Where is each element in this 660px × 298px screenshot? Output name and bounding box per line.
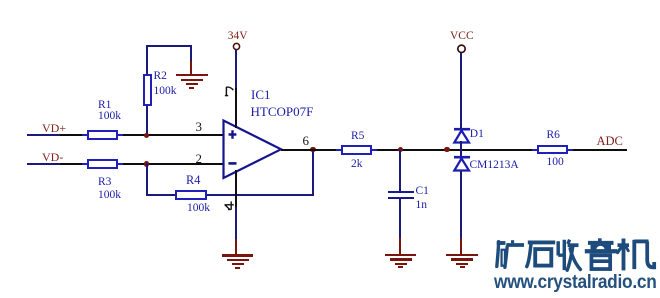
pin number 6 — [303, 134, 310, 147]
wire CM1213A to ground — [460, 171, 462, 238]
label R1 — [98, 100, 111, 112]
label R3 — [98, 177, 111, 189]
wire R2 top to ground — [146, 45, 148, 74]
wire feedback bottom left segment — [146, 194, 176, 196]
resistor R3 — [82, 163, 87, 165]
label R6 — [547, 130, 560, 142]
value 2k — [351, 159, 363, 171]
wire pin 4 down — [235, 170, 237, 207]
resistor R6 — [532, 149, 537, 151]
wire R2 bottom lead — [146, 105, 148, 135]
wire C1 bottom lead — [399, 199, 401, 238]
resistor R2 — [143, 74, 153, 106]
net label VD- — [42, 151, 63, 163]
wire feedback vertical up to output — [312, 150, 314, 196]
wire R5 to R6 (black) — [377, 149, 537, 151]
wire VD- to pin 2 (black) — [60, 163, 223, 165]
value 100k (R3) — [98, 190, 121, 202]
node junction diode clamp — [444, 147, 449, 152]
diode CM1213A — [450, 154, 474, 174]
label HTCOP07F — [251, 105, 314, 118]
wire VD+ net stub (navy) — [27, 134, 62, 136]
pin number 7 (rotated) — [222, 84, 236, 99]
wire between diodes — [460, 141, 462, 157]
label R5 — [351, 131, 364, 143]
watermark logo (site name) — [492, 236, 658, 274]
net label ADC — [597, 135, 623, 148]
pin number 4 (rotated) — [223, 199, 237, 214]
op-amp U1 triangle — [218, 115, 288, 185]
resistor R1 — [82, 134, 87, 136]
ground (C1) — [399, 238, 401, 254]
ground (top, by R2) — [190, 61, 192, 75]
ji — [618, 243, 630, 247]
value 100 — [547, 157, 564, 169]
value 100k (R1) — [98, 111, 121, 123]
shi — [528, 240, 555, 244]
resistor R5 — [336, 149, 341, 151]
node junction VD-/feedback — [144, 161, 149, 166]
value 100k (R4) — [187, 203, 210, 215]
kuang — [497, 242, 499, 267]
capacitor C1 — [388, 191, 414, 193]
label C1 — [416, 186, 429, 198]
label R4 — [186, 174, 200, 186]
resistor R4 — [175, 190, 207, 200]
yin — [598, 238, 602, 241]
wire VD- net stub (navy) — [27, 163, 62, 165]
value 1n — [416, 200, 428, 212]
wire R6 to ADC (black) — [573, 149, 627, 151]
label R2 — [154, 71, 167, 83]
wire VCC down to D1 — [460, 53, 462, 128]
value 100k (R2) — [154, 86, 177, 98]
label IC1 — [251, 88, 271, 101]
ground (diodes) — [460, 238, 462, 254]
wire feedback bottom right segment — [207, 194, 314, 196]
node output junction — [310, 147, 315, 152]
power port VCC — [453, 41, 471, 59]
diode D1 — [450, 126, 474, 146]
wire C1 top lead — [399, 150, 401, 191]
node junction C1 — [398, 147, 403, 152]
wire output to R5 (black) — [281, 149, 337, 151]
net label VD+ — [42, 122, 66, 134]
pin number 2 — [196, 152, 203, 165]
shou — [558, 240, 564, 270]
wire VD+ to pin 3 (black) — [60, 134, 223, 136]
ground (pin 4) — [235, 239, 237, 255]
watermark url — [494, 273, 657, 292]
wire pin 7 from 34V — [235, 50, 237, 88]
label D1 — [470, 129, 484, 141]
pin number 3 — [196, 120, 203, 133]
label CM1213A — [470, 160, 519, 172]
wire VD- junction down to feedback — [146, 163, 148, 196]
power port 34V — [229, 39, 245, 55]
node junction R2/VD+ — [144, 133, 149, 138]
